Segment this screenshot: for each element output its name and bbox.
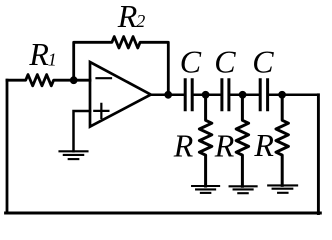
node B xyxy=(202,91,210,99)
node D xyxy=(278,91,286,99)
svg-text:2: 2 xyxy=(136,11,145,31)
svg-text:R: R xyxy=(117,0,138,34)
node A: output node xyxy=(164,91,172,99)
wire: C2 to C3 xyxy=(230,94,259,97)
ground (op-amp non-inverting input) xyxy=(60,151,88,159)
wire: op-amp output to C1 xyxy=(151,94,184,97)
node C xyxy=(239,91,247,99)
capacitor C2 xyxy=(222,80,229,110)
svg-text:C: C xyxy=(214,43,236,79)
wire: right feedback return xyxy=(317,95,320,214)
svg-text:R: R xyxy=(28,36,49,72)
wire: non-inverting input to ground xyxy=(74,111,91,151)
capacitor C3 xyxy=(260,80,267,110)
wire: outer feedback return loop (left, bottom, right edges) xyxy=(6,80,9,213)
ground (second shunt) xyxy=(230,186,257,193)
svg-text:R: R xyxy=(253,127,274,163)
capacitor C1 xyxy=(185,80,192,110)
resistor R (second shunt) xyxy=(236,95,248,187)
node: inverting-input junction xyxy=(70,76,78,84)
ground (first shunt) xyxy=(192,186,219,193)
op-amp U1 xyxy=(90,62,151,127)
wire: C1 to C2 xyxy=(193,94,220,97)
svg-text:C: C xyxy=(180,43,202,79)
svg-text:1: 1 xyxy=(48,50,57,70)
svg-text:C: C xyxy=(252,43,274,79)
resistor R1 xyxy=(7,75,90,86)
ground (third shunt) xyxy=(268,185,297,192)
resistor R (first shunt) xyxy=(199,95,211,186)
svg-text:R: R xyxy=(173,128,194,164)
wire: bottom feedback return xyxy=(6,212,321,215)
resistor R2 (feedback) xyxy=(74,37,169,95)
resistor R (third shunt) xyxy=(276,95,288,186)
wire: C3 to right edge xyxy=(269,94,319,97)
svg-text:R: R xyxy=(214,127,235,163)
